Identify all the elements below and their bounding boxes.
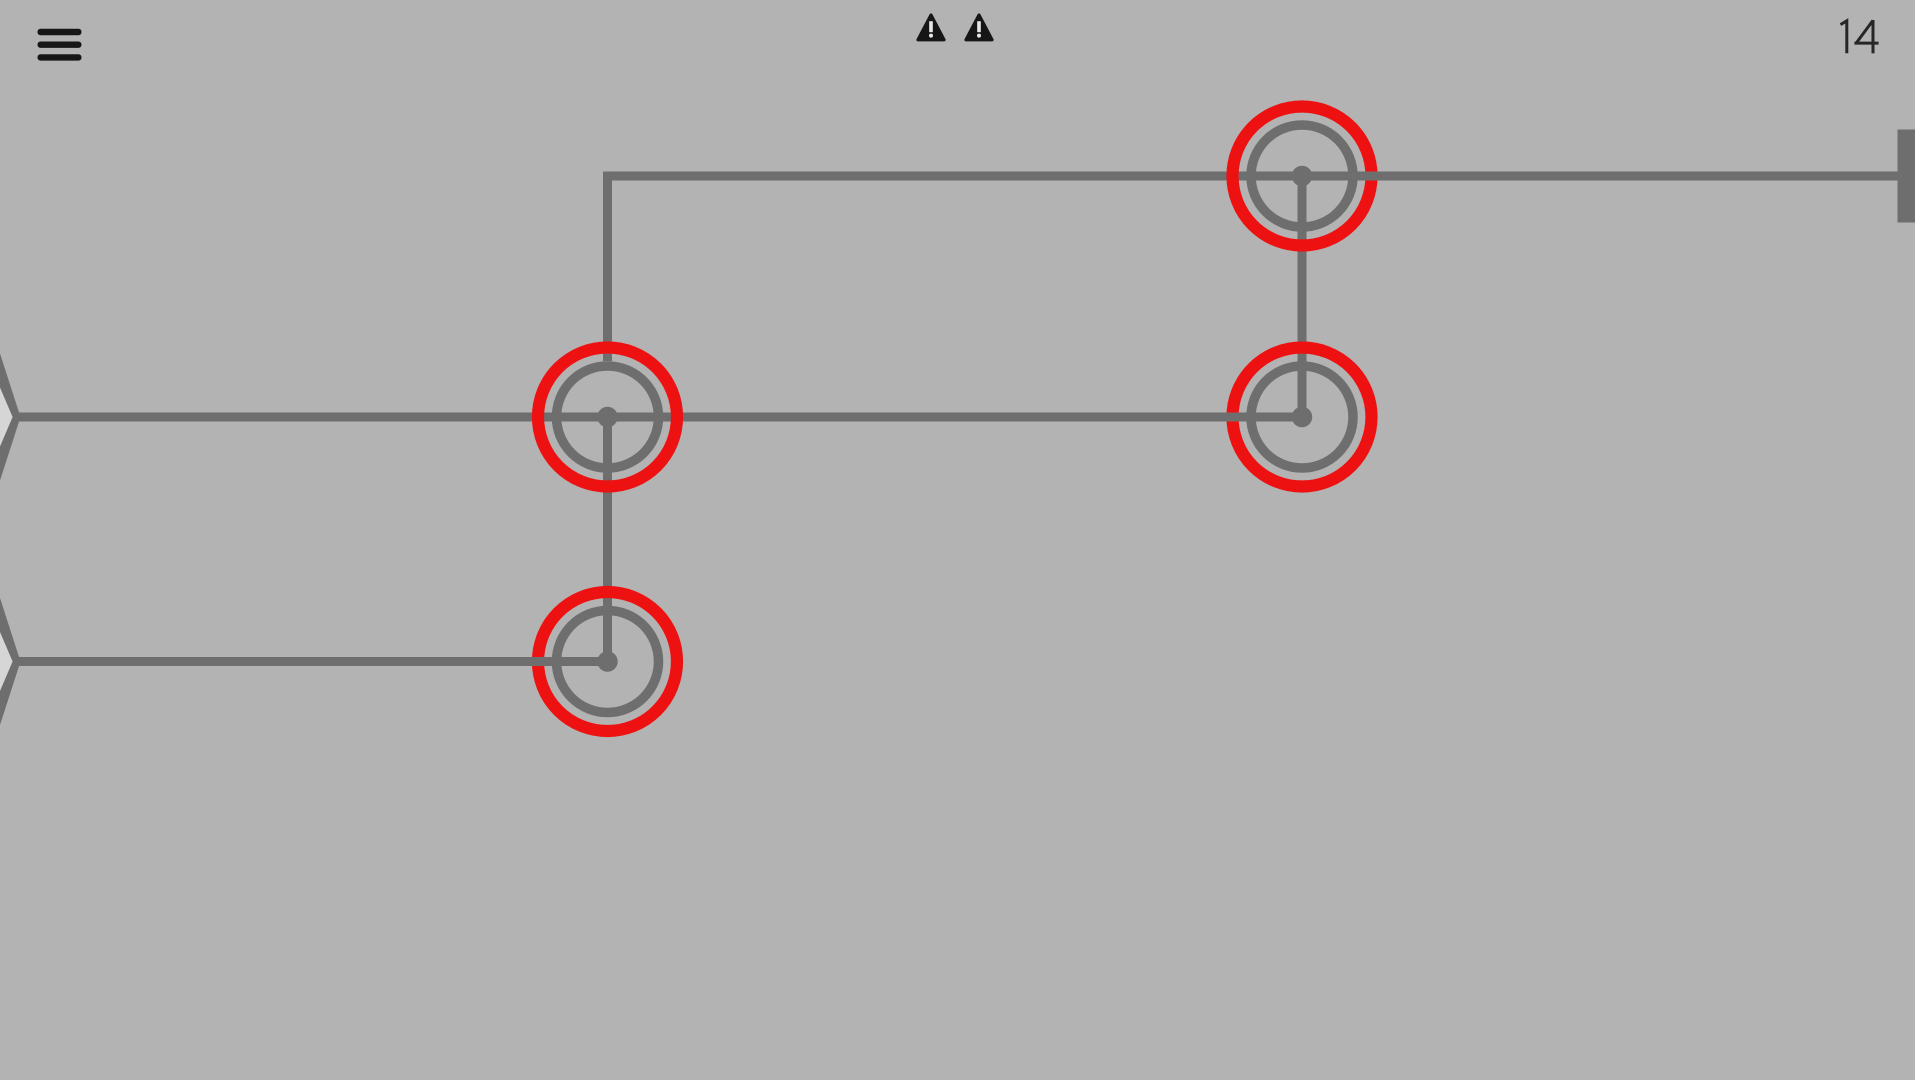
node N4 red ring [538,592,677,731]
node N4 gray ring [557,611,659,713]
node N1 gray ring [1251,125,1353,227]
node N1 red ring [1233,107,1372,246]
node N2 fill [1246,361,1358,473]
hamburger menu icon [38,29,82,61]
node N3 red ring [538,348,677,487]
node N1 fill [1246,120,1358,232]
node N2 center dot [1292,407,1313,428]
left socket wedge (row 3) [0,589,21,735]
node N4 center dot [597,651,618,672]
wire D : N3 dot down to N4 dot [603,417,612,662]
node N1 center dot [1292,166,1313,187]
node N4 fill [552,606,664,718]
warning triangle icon 2 [966,15,992,40]
node N2 red ring [1233,348,1372,487]
node N3 fill [552,361,664,473]
level number 14 [1841,20,1879,53]
node N3 center dot [597,407,618,428]
wire G : left edge socket to N4 dot (over N4 red ring) [17,657,608,666]
warning triangle icon 1 [918,15,944,40]
left socket inner triangle (row 2) [0,381,13,454]
left socket inner triangle (row 3) [0,625,13,698]
node N3 gray ring [557,366,659,468]
left socket wedge (row 2) [0,344,21,490]
wire C : N3 dot right to N2 dot (over N2 red ring) [608,413,1303,422]
wire A : N1 dot right to exit bar (over N1 red ring) [1302,172,1915,181]
exit bar right edge [1898,130,1915,223]
node N2 gray ring [1251,366,1353,468]
wire F : left edge socket to N3 dot [17,413,608,422]
wire E : N1 dot down to N2 dot [1298,176,1307,417]
wire B : N1 dot left then down to N3 (under N3 disc) [608,176,1303,417]
